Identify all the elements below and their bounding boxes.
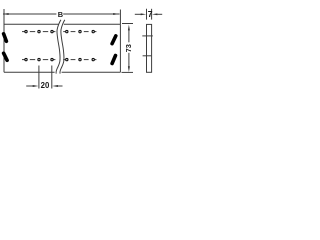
arrowhead 73 up: [128, 25, 130, 31]
hole 4 bottom: [66, 58, 68, 60]
hole 5 top: [79, 30, 81, 32]
side view tick lower: [143, 55, 152, 57]
arrowhead B left: [3, 13, 9, 15]
extension line 20 right: [51, 66, 53, 89]
hole 5 bottom: [79, 58, 81, 60]
hole 2 bottom: [38, 58, 40, 60]
svg-text:B: B: [58, 10, 63, 19]
slot lower right: [112, 56, 115, 64]
arrowhead 7 right: [152, 13, 157, 15]
arrowhead 20 right: [52, 85, 58, 87]
hole 4 top: [66, 30, 68, 32]
svg-text:7: 7: [148, 9, 153, 19]
hole 6 bottom: [92, 58, 94, 60]
hole 2 top: [38, 30, 40, 32]
plate top edge right segment: [64, 23, 121, 25]
dimension line 7 left: [135, 13, 142, 15]
hole 1 bottom: [25, 58, 27, 60]
extension line 7 left: [146, 9, 148, 20]
plate bottom edge left segment: [4, 71, 55, 73]
plate top edge left segment: [4, 23, 59, 25]
side view rectangle: [147, 24, 152, 72]
extension line 7 right: [151, 9, 153, 20]
hole 6 top: [92, 30, 94, 32]
hole 1 top: [25, 30, 27, 32]
hole center line top row: [22, 31, 96, 33]
hole center line bottom row: [22, 59, 96, 61]
slot upper right: [112, 36, 116, 44]
dimension line B: [3, 13, 120, 15]
arrowhead 73 down: [128, 66, 130, 72]
dimension line 7 right: [157, 13, 162, 15]
arrowhead 7 left: [141, 13, 146, 15]
svg-text:73: 73: [124, 44, 133, 52]
slot upper left: [4, 34, 7, 42]
extension tick 73 bottom: [122, 71, 134, 73]
extension line B right: [119, 10, 121, 25]
slot lower left: [4, 53, 8, 60]
break line right curve: [60, 20, 65, 74]
plate left edge (extends up as extension line for B): [3, 9, 5, 72]
extension line 20 left: [38, 66, 40, 89]
arrowhead 20 left: [33, 85, 39, 87]
break line left curve: [56, 20, 61, 74]
extension tick 73 top: [122, 23, 133, 25]
plate right edge: [119, 24, 121, 72]
dimension line 20 right: [57, 85, 62, 87]
hole 3 top: [51, 30, 53, 32]
dimension line 20 left: [26, 85, 33, 87]
arrowhead B right: [113, 13, 119, 15]
dimension line 73: [128, 30, 130, 68]
background: [0, 0, 165, 100]
side view tick upper: [142, 35, 153, 37]
svg-text:20: 20: [41, 81, 50, 90]
plate bottom edge right segment: [62, 71, 121, 73]
hole 3 bottom: [51, 58, 53, 60]
